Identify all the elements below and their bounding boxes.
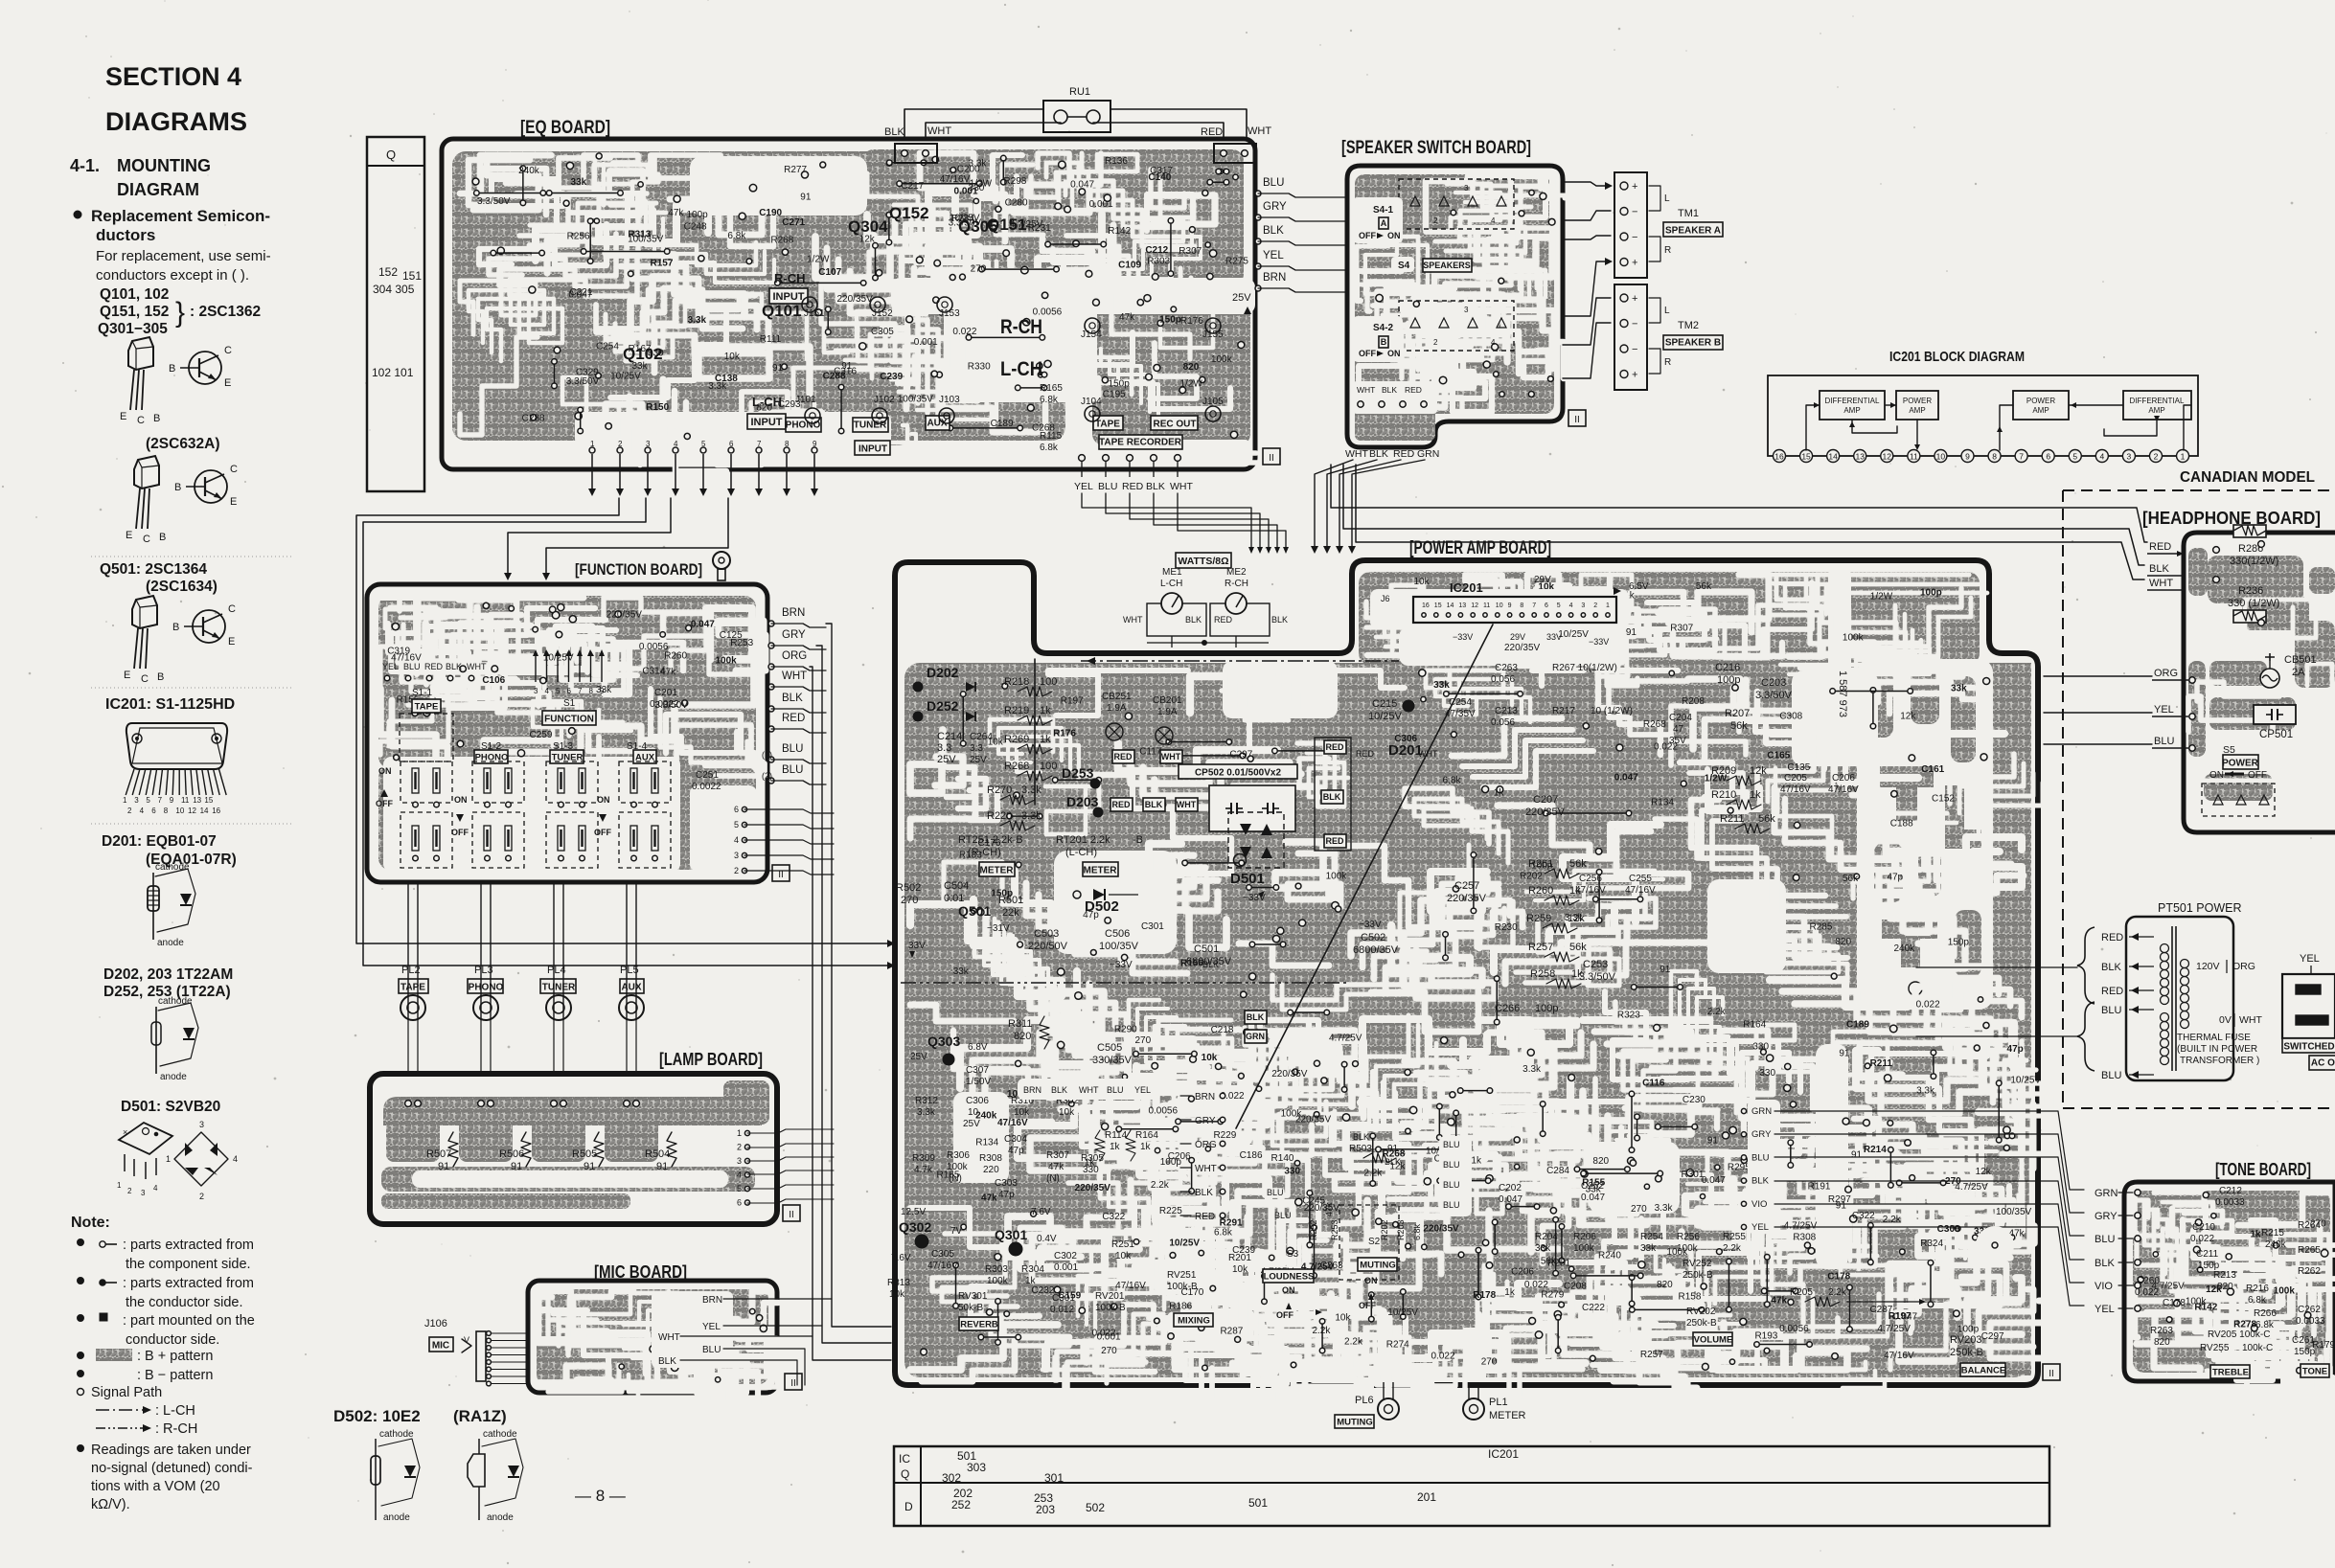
svg-text:TM1: TM1 (1678, 208, 1699, 219)
svg-text:5: 5 (2072, 452, 2077, 462)
svg-text:RT201 2.2k: RT201 2.2k (1056, 834, 1110, 846)
svg-text:[FUNCTION BOARD]: [FUNCTION BOARD] (575, 560, 702, 579)
svg-text:270: 270 (1481, 1357, 1498, 1368)
svg-text:2.2k: 2.2k (1723, 1243, 1742, 1254)
svg-text:91: 91 (1626, 627, 1637, 638)
svg-text:820: 820 (1657, 1280, 1673, 1290)
svg-text:2.2k: 2.2k (1344, 1337, 1363, 1348)
svg-text:C: C (224, 345, 232, 356)
svg-text:DIFFERENTIAL: DIFFERENTIAL (1825, 397, 1880, 405)
svg-text:BLU: BLU (1263, 177, 1284, 189)
svg-text:C189: C189 (1846, 1019, 1869, 1030)
svg-text:R265: R265 (2298, 1245, 2321, 1256)
svg-text:C266: C266 (1495, 1003, 1520, 1014)
svg-text:150p: 150p (1109, 379, 1131, 390)
svg-text:1.9A: 1.9A (1157, 707, 1178, 717)
svg-text:C206: C206 (1511, 1267, 1534, 1278)
svg-text:252: 252 (951, 1498, 971, 1511)
svg-text:12k: 12k (1900, 712, 1916, 722)
svg-text:ON: ON (1364, 1276, 1378, 1285)
svg-text:MUTING: MUTING (1337, 1417, 1372, 1427)
svg-text:9: 9 (1965, 452, 1970, 462)
svg-text:330/35V: 330/35V (1092, 1055, 1133, 1066)
svg-text:R201: R201 (1228, 1253, 1251, 1263)
svg-text:R209: R209 (1711, 765, 1736, 777)
svg-text:150p: 150p (1159, 314, 1181, 325)
svg-text:6.8V: 6.8V (968, 1042, 988, 1053)
svg-text:YEL: YEL (1751, 1222, 1769, 1233)
svg-text:4: 4 (1569, 602, 1573, 609)
svg-text:3.3/50V: 3.3/50V (477, 196, 511, 207)
svg-text:R220: R220 (987, 810, 1012, 822)
svg-text:C222: C222 (1582, 1303, 1605, 1313)
svg-text:SPEAKERS: SPEAKERS (1423, 261, 1471, 270)
svg-text:11: 11 (181, 796, 190, 805)
svg-text:BLK: BLK (658, 1356, 676, 1367)
svg-text:501: 501 (1248, 1496, 1268, 1510)
svg-text:270: 270 (1945, 1176, 1961, 1187)
svg-text:METER: METER (1489, 1410, 1526, 1421)
svg-text:35V: 35V (1669, 736, 1686, 746)
svg-text:C206: C206 (1168, 1151, 1191, 1162)
svg-text:330 (1/2W): 330 (1/2W) (2228, 598, 2279, 609)
svg-text:(2): (2) (762, 771, 772, 781)
svg-text:BLK: BLK (2149, 563, 2169, 575)
svg-text:C190: C190 (759, 208, 782, 218)
svg-text:RV201: RV201 (1095, 1291, 1125, 1302)
svg-text:C314: C314 (642, 667, 665, 677)
svg-text:3.3/50V: 3.3/50V (566, 376, 600, 387)
svg-text:12.5V: 12.5V (901, 1207, 926, 1217)
svg-text:R203: R203 (1396, 1219, 1406, 1240)
svg-text:B: B (159, 532, 166, 543)
svg-text:1/50V: 1/50V (966, 1077, 991, 1087)
svg-text:91: 91 (438, 1161, 449, 1172)
svg-text:R506: R506 (499, 1148, 524, 1160)
svg-text:RED: RED (1325, 836, 1344, 846)
svg-text:4.7/25V: 4.7/25V (1877, 1324, 1911, 1334)
svg-text:BLK: BLK (1751, 1176, 1770, 1187)
svg-text:C284: C284 (1546, 1166, 1569, 1176)
svg-text:10k: 10k (1232, 1264, 1248, 1275)
svg-text:BLU: BLU (2101, 1070, 2121, 1081)
svg-text:10: 10 (1936, 452, 1946, 462)
svg-text:C288: C288 (522, 414, 545, 424)
svg-text:10/25V: 10/25V (610, 372, 641, 382)
svg-text:C210: C210 (2192, 1222, 2215, 1233)
svg-text:1: 1 (1606, 602, 1610, 609)
svg-text:1 587 973: 1 587 973 (1837, 670, 1848, 717)
svg-text:240k: 240k (2265, 1239, 2287, 1250)
svg-text:56k: 56k (1758, 813, 1775, 825)
svg-text:BLU: BLU (403, 662, 421, 671)
svg-text:4.7/25V: 4.7/25V (1784, 1221, 1818, 1232)
svg-text:RED: RED (2101, 932, 2123, 943)
svg-text:R214: R214 (1864, 1145, 1887, 1155)
svg-text:conductor side.: conductor side. (126, 1332, 219, 1348)
svg-text:R504: R504 (645, 1148, 670, 1160)
svg-text:ME1: ME1 (1162, 567, 1182, 578)
svg-text:3.3/50V: 3.3/50V (1755, 690, 1793, 701)
svg-text:MUTING: MUTING (1360, 1260, 1395, 1270)
svg-text:WHT: WHT (2149, 578, 2173, 589)
svg-text:R268: R268 (1004, 761, 1029, 772)
svg-text:POWER: POWER (2222, 759, 2259, 769)
svg-text:R219: R219 (1004, 705, 1029, 716)
svg-text:R206: R206 (1573, 1232, 1596, 1242)
svg-text:330: 330 (1284, 1167, 1300, 1177)
svg-text:R505: R505 (572, 1148, 597, 1160)
svg-text:47p: 47p (1008, 1146, 1024, 1156)
svg-text:C306: C306 (966, 1096, 989, 1106)
svg-text:RV251: RV251 (1167, 1270, 1197, 1281)
svg-text:R254: R254 (1640, 1232, 1663, 1242)
svg-text:2.2k: 2.2k (1707, 1007, 1727, 1017)
svg-text:220: 220 (983, 1165, 999, 1175)
svg-text:RED: RED (1393, 448, 1415, 460)
svg-text:ON: ON (1387, 349, 1401, 358)
svg-text:56k: 56k (1569, 942, 1587, 953)
svg-text:ductors: ductors (96, 226, 155, 244)
svg-text:7: 7 (1532, 602, 1536, 609)
svg-text:C: C (141, 673, 149, 685)
svg-text:3.3: 3.3 (970, 743, 983, 754)
svg-text:conductors except in ( ).: conductors except in ( ). (96, 267, 249, 284)
svg-text:BRN: BRN (782, 607, 805, 619)
svg-text:10/25V: 10/25V (1368, 711, 1403, 722)
svg-text:R267 10(1/2W): R267 10(1/2W) (1552, 663, 1617, 673)
svg-text:TRANSFORMER ): TRANSFORMER ) (2180, 1056, 2259, 1066)
svg-text:E: E (120, 411, 126, 422)
svg-text:56k: 56k (1696, 581, 1712, 592)
svg-text:THERMAL FUSE: THERMAL FUSE (2177, 1033, 2251, 1043)
svg-text:CB501: CB501 (2284, 654, 2317, 666)
svg-text:C203: C203 (1761, 677, 1786, 689)
svg-text:BRN: BRN (1195, 1092, 1215, 1102)
svg-text:R307: R307 (1179, 246, 1202, 257)
svg-text:ON: ON (597, 795, 610, 805)
svg-text:(BUILT IN POWER: (BUILT IN POWER (2177, 1044, 2257, 1055)
svg-text:YEL: YEL (382, 662, 399, 671)
svg-text:3: 3 (199, 1120, 204, 1129)
svg-text:2: 2 (199, 1192, 204, 1201)
svg-text:R134: R134 (975, 1137, 998, 1148)
svg-text:10k: 10k (1202, 1053, 1218, 1063)
svg-text:R298: R298 (1003, 176, 1026, 187)
svg-text:R274: R274 (1386, 1340, 1409, 1351)
svg-text:R507: R507 (426, 1148, 451, 1160)
svg-text:4: 4 (737, 1170, 742, 1180)
svg-text:Q101: Q101 (762, 302, 802, 320)
svg-text:R178: R178 (1473, 1290, 1496, 1301)
svg-text:100: 100 (1040, 761, 1057, 772)
svg-text:6: 6 (2046, 452, 2050, 462)
svg-text:tions with a VOM (20: tions with a VOM (20 (91, 1479, 220, 1494)
svg-text:100k: 100k (1843, 633, 1865, 644)
svg-text:R503: R503 (1349, 1144, 1372, 1154)
svg-text:R136: R136 (1105, 156, 1128, 167)
svg-text:3: 3 (646, 440, 651, 448)
svg-text:R264: R264 (2298, 1220, 2321, 1231)
svg-text:3.3k: 3.3k (917, 1107, 936, 1118)
svg-text:1k: 1k (1471, 1156, 1482, 1167)
svg-text:203: 203 (1036, 1503, 1055, 1516)
svg-text:220/35V: 220/35V (1304, 1203, 1340, 1214)
svg-text:C211: C211 (2196, 1249, 2219, 1260)
svg-text:47/16V: 47/16V (1115, 1281, 1146, 1291)
svg-text:CB201: CB201 (1153, 695, 1182, 706)
svg-text:(RA1Z): (RA1Z) (453, 1407, 507, 1425)
svg-text:Q: Q (901, 1467, 909, 1481)
svg-text:C188: C188 (1890, 819, 1913, 829)
svg-text:3: 3 (534, 687, 538, 695)
svg-text:11: 11 (1483, 602, 1490, 609)
svg-text:0.012: 0.012 (1050, 1305, 1074, 1315)
svg-text:0.0056: 0.0056 (1779, 1324, 1809, 1334)
svg-text:C256: C256 (1579, 874, 1602, 884)
svg-text:anode: anode (383, 1512, 410, 1523)
svg-text:33V: 33V (1546, 632, 1562, 642)
svg-text:330: 330 (1752, 1041, 1769, 1052)
svg-text:AUX: AUX (621, 983, 641, 993)
svg-text:ON: ON (1282, 1285, 1295, 1295)
svg-text:[EQ BOARD]: [EQ BOARD] (520, 118, 610, 138)
svg-text:33k: 33k (1535, 1243, 1551, 1254)
svg-text:BLK: BLK (1051, 1085, 1067, 1095)
svg-text:IC201: S1-1125HD: IC201: S1-1125HD (105, 696, 235, 713)
svg-text:R269: R269 (1004, 734, 1029, 745)
svg-text:10/25V: 10/25V (2010, 1076, 2041, 1086)
svg-text:820: 820 (1835, 937, 1851, 947)
svg-text:L-CH: L-CH (1160, 579, 1182, 589)
svg-text:BLU: BLU (1098, 481, 1117, 492)
svg-text:6.8k: 6.8k (2248, 1295, 2267, 1306)
svg-text:−: − (1632, 344, 1637, 355)
svg-text:3.3/50V: 3.3/50V (1579, 971, 1616, 983)
svg-text:0.0022: 0.0022 (692, 782, 721, 792)
svg-text:6: 6 (151, 807, 156, 815)
svg-text:250k-B: 250k-B (1683, 1270, 1713, 1281)
svg-text:22k: 22k (1002, 907, 1019, 919)
svg-text:−33V: −33V (1359, 920, 1382, 930)
svg-text:+: + (1632, 293, 1637, 305)
svg-text:9: 9 (813, 440, 817, 448)
svg-text:91: 91 (656, 1161, 668, 1172)
svg-text:0.047: 0.047 (568, 290, 592, 301)
svg-text:3: 3 (1581, 602, 1585, 609)
svg-text:0.0056: 0.0056 (1148, 1105, 1178, 1116)
svg-text:MOUNTING: MOUNTING (117, 156, 211, 175)
svg-text:R307: R307 (1670, 624, 1693, 634)
svg-text:10k: 10k (889, 1289, 905, 1300)
svg-text:C304: C304 (1004, 1134, 1027, 1145)
svg-text:the component side.: the component side. (126, 1257, 251, 1272)
svg-text:R179: R179 (2312, 1340, 2335, 1351)
svg-text:WHT: WHT (1170, 481, 1193, 492)
svg-text:15: 15 (204, 796, 213, 805)
svg-text:D502: 10E2: D502: 10E2 (333, 1407, 421, 1425)
svg-text:cathode: cathode (155, 862, 190, 873)
svg-text:V: V (464, 1335, 469, 1345)
svg-text:−: − (1632, 232, 1637, 243)
svg-text:C205: C205 (1784, 773, 1807, 784)
svg-text:C255: C255 (1629, 874, 1652, 884)
svg-text:TAPE: TAPE (415, 701, 439, 712)
svg-text:3: 3 (734, 851, 739, 860)
svg-text:WHT: WHT (782, 670, 807, 682)
svg-text:C230: C230 (1683, 1095, 1705, 1105)
svg-text:ON: ON (1387, 231, 1401, 240)
svg-text:R502: R502 (896, 882, 921, 894)
svg-text:PHONO: PHONO (786, 420, 821, 431)
svg-text:R304: R304 (1021, 1264, 1044, 1275)
svg-text:YEL: YEL (2095, 1304, 2115, 1315)
svg-text:6.8k: 6.8k (727, 231, 746, 241)
svg-text:REVERB: REVERB (960, 1319, 998, 1329)
svg-text:CP502 0.01/500Vx2: CP502 0.01/500Vx2 (1195, 768, 1282, 779)
svg-text:C251: C251 (696, 770, 719, 781)
svg-text:R258: R258 (1530, 968, 1555, 980)
svg-text:R-CH: R-CH (774, 271, 806, 285)
svg-text:VOLUME: VOLUME (1694, 1334, 1733, 1345)
svg-text:WHT: WHT (1345, 448, 1368, 460)
svg-text:R256: R256 (567, 232, 590, 242)
svg-text:7: 7 (578, 687, 583, 695)
svg-text:R291: R291 (1220, 1217, 1243, 1228)
svg-text:14: 14 (1447, 602, 1454, 609)
svg-text:R205: R205 (1790, 1287, 1813, 1298)
svg-text:C280: C280 (1005, 197, 1028, 208)
svg-text:220/50V: 220/50V (1028, 941, 1068, 952)
svg-text:TAPE RECORDER: TAPE RECORDER (1099, 438, 1182, 448)
svg-text:SWITCHED: SWITCHED (2283, 1042, 2334, 1053)
svg-text:BLK: BLK (1385, 1157, 1401, 1167)
svg-text:1: 1 (117, 1181, 122, 1190)
svg-text:4: 4 (1491, 216, 1496, 225)
svg-text:C217: C217 (901, 181, 924, 192)
svg-text:−33V: −33V (1589, 637, 1609, 647)
svg-text:91: 91 (584, 1161, 595, 1172)
svg-text:0.022: 0.022 (2135, 1287, 2159, 1298)
svg-text:R186: R186 (1169, 1301, 1192, 1311)
svg-text:C248: C248 (684, 222, 707, 233)
svg-text:302: 302 (942, 1471, 961, 1485)
svg-text:BLK: BLK (1247, 1012, 1265, 1022)
svg-text:: B − pattern: : B − pattern (137, 1368, 213, 1383)
svg-text:E: E (228, 636, 235, 648)
svg-text:R176: R176 (1180, 316, 1203, 327)
svg-text:C216: C216 (1715, 662, 1740, 673)
svg-text:CANADIAN MODEL: CANADIAN MODEL (2180, 469, 2315, 486)
svg-text:anode: anode (160, 1072, 187, 1082)
svg-text:7.6V: 7.6V (891, 1253, 911, 1263)
svg-text:0.047: 0.047 (1702, 1175, 1726, 1186)
svg-text:0.047: 0.047 (1499, 1194, 1522, 1205)
svg-text:0.047: 0.047 (691, 619, 715, 629)
svg-text:100/35V: 100/35V (898, 394, 934, 404)
svg-text:R197: R197 (1061, 696, 1084, 707)
svg-text:GRY: GRY (1263, 201, 1287, 213)
svg-text:10k: 10k (1413, 577, 1430, 587)
svg-text:33k: 33k (1640, 1243, 1657, 1254)
svg-text:C116: C116 (1642, 1079, 1665, 1089)
svg-text:TAPE: TAPE (1095, 420, 1120, 430)
svg-text:WHT: WHT (1195, 1164, 1217, 1174)
svg-text:6: 6 (729, 440, 734, 448)
svg-text:Signal Path: Signal Path (91, 1385, 162, 1400)
svg-text:A: A (1381, 218, 1387, 228)
svg-text:0.022: 0.022 (1916, 999, 1940, 1010)
svg-text:(R-CH): (R-CH) (968, 847, 1001, 858)
svg-text:WHT: WHT (2239, 1014, 2262, 1026)
svg-text:270: 270 (1134, 1035, 1151, 1046)
svg-text:100/35V: 100/35V (1996, 1207, 2032, 1217)
svg-text:E: E (124, 670, 130, 681)
svg-text:2: 2 (737, 1143, 742, 1152)
svg-text:8: 8 (164, 807, 169, 815)
svg-text:4: 4 (233, 1154, 238, 1164)
svg-text:47/16V: 47/16V (1575, 885, 1606, 896)
svg-text:J101: J101 (795, 395, 816, 405)
svg-text:R-CH: R-CH (1000, 316, 1042, 338)
svg-text:330: 330 (1759, 1068, 1775, 1079)
svg-text:5: 5 (556, 687, 561, 695)
svg-text:3.3k: 3.3k (688, 315, 707, 326)
svg-text:C206: C206 (1832, 773, 1855, 784)
svg-text:[TONE BOARD]: [TONE BOARD] (2215, 1160, 2311, 1179)
svg-text:}: } (175, 297, 185, 329)
svg-text:R225: R225 (1159, 1206, 1182, 1216)
svg-text:R211: R211 (1870, 1058, 1893, 1069)
svg-text:C252: C252 (1581, 1181, 1604, 1192)
svg-text:12: 12 (1471, 602, 1478, 609)
svg-text:ON: ON (378, 766, 392, 776)
svg-text:R311: R311 (1008, 1018, 1032, 1030)
svg-text:Q304: Q304 (848, 217, 888, 236)
svg-text:TREBLE: TREBLE (2212, 1367, 2249, 1377)
svg-text:220/35V: 220/35V (607, 609, 643, 620)
svg-text:D201: EQB01-07: D201: EQB01-07 (102, 833, 217, 850)
svg-text:2: 2 (618, 440, 623, 448)
svg-text:820: 820 (2217, 1282, 2233, 1292)
svg-text:56k: 56k (1569, 858, 1587, 870)
svg-text:RV301: RV301 (958, 1291, 988, 1302)
svg-text:B: B (1381, 337, 1387, 347)
svg-text:−33V: −33V (1453, 632, 1473, 642)
svg-text:L: L (1664, 306, 1670, 316)
svg-text:0.022: 0.022 (1431, 1352, 1454, 1362)
svg-text:220/35V: 220/35V (1271, 1069, 1308, 1079)
svg-text:SECTION 4: SECTION 4 (105, 62, 241, 91)
svg-text:R287: R287 (1220, 1326, 1243, 1336)
svg-text:R312: R312 (915, 1096, 938, 1106)
svg-text:9: 9 (600, 687, 605, 695)
svg-text:12k: 12k (1976, 1167, 1992, 1177)
svg-text:BRN: BRN (1023, 1085, 1042, 1095)
svg-text:R260: R260 (1528, 885, 1553, 897)
svg-text:1: 1 (123, 796, 127, 805)
svg-text:6.8k: 6.8k (1443, 775, 1462, 785)
svg-text:II: II (1574, 415, 1580, 425)
svg-text:R197: R197 (1889, 1311, 1911, 1322)
svg-text:PL1: PL1 (1489, 1397, 1508, 1408)
svg-text:820: 820 (1592, 1156, 1609, 1167)
svg-text:C504: C504 (944, 880, 969, 892)
svg-text:kΩ/V).: kΩ/V). (91, 1497, 130, 1512)
svg-text:15: 15 (1801, 452, 1811, 462)
svg-text:220/35V: 220/35V (1504, 643, 1541, 653)
svg-text:R216: R216 (2246, 1284, 2269, 1294)
